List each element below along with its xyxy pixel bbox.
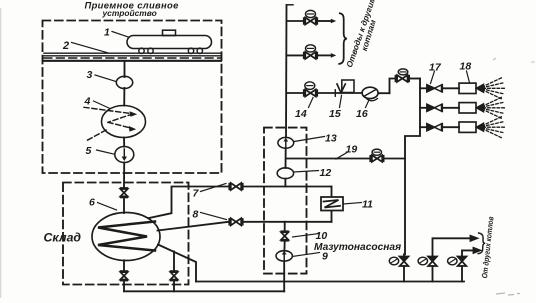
svg-text:19: 19 [346, 144, 358, 156]
svg-text:16: 16 [356, 108, 368, 120]
svg-text:устройство: устройство [102, 8, 157, 18]
svg-text:17: 17 [429, 62, 442, 74]
svg-text:14: 14 [295, 108, 307, 120]
svg-text:11: 11 [362, 199, 373, 211]
svg-text:5: 5 [86, 145, 92, 157]
svg-text:6: 6 [89, 197, 95, 209]
svg-text:8: 8 [193, 209, 199, 221]
svg-text:4: 4 [84, 96, 91, 108]
svg-text:Склад: Склад [44, 231, 82, 245]
svg-text:15: 15 [329, 108, 341, 120]
svg-text:Мазутонасосная: Мазутонасосная [314, 242, 401, 253]
svg-text:1: 1 [104, 27, 110, 39]
svg-text:3: 3 [87, 69, 93, 81]
svg-text:18: 18 [460, 61, 472, 73]
svg-text:13: 13 [325, 133, 337, 145]
svg-text:2: 2 [62, 40, 69, 52]
svg-text:12: 12 [320, 167, 332, 179]
svg-text:10: 10 [316, 230, 328, 242]
